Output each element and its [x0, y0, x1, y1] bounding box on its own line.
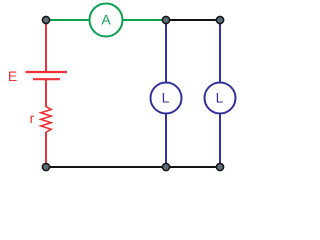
lamp L2: [205, 83, 236, 114]
node bottom-middle junction: [162, 163, 169, 170]
node bottom-left junction: [42, 163, 49, 170]
wire blue (node down to lamp L2): [219, 20, 221, 83]
wire red (battery to resistor): [45, 80, 47, 107]
resistor r: [41, 107, 51, 133]
svg-text:E: E: [8, 68, 17, 84]
node bottom-right junction: [216, 163, 223, 170]
wire top green right (ammeter to node): [122, 19, 166, 21]
wire blue (lamp L2 to bottom node): [219, 113, 221, 167]
wire top green left (node to ammeter): [46, 19, 90, 21]
svg-text:r: r: [30, 110, 35, 126]
label r: [30, 110, 35, 126]
svg-text:L: L: [216, 90, 224, 106]
wire red (resistor to bottom node): [45, 132, 47, 167]
node top-middle junction: [162, 16, 169, 23]
ammeter A: [90, 4, 123, 37]
wire bottom black rail: [46, 166, 220, 168]
node top-right junction: [216, 16, 223, 23]
battery E: [26, 72, 68, 79]
wire blue (node down to lamp L1): [165, 20, 167, 83]
wire blue (lamp L1 to bottom node): [165, 113, 167, 167]
node top-left junction: [42, 16, 49, 23]
lamp L1: [151, 83, 182, 114]
wire top black (node to node): [166, 19, 220, 21]
svg-text:L: L: [162, 90, 170, 106]
svg-text:A: A: [101, 12, 111, 28]
label E: [8, 68, 17, 84]
wire red (node down to battery): [45, 20, 47, 71]
